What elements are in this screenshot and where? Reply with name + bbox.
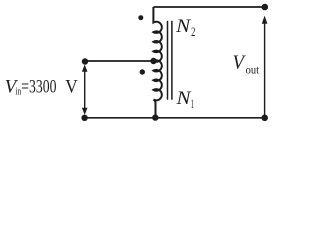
label: N2 (upper winding) [175,17,195,39]
label: N1 (lower winding) [175,89,194,111]
Vin voltage arrow (double-headed, between Vin terminals) [82,65,88,115]
node: winding tap junction [150,58,156,64]
node: Vout + terminal [262,4,269,11]
polarity dot of winding N1 [140,69,145,74]
svg-text:1: 1 [191,96,194,111]
polarity dot of winding N2 [138,15,143,20]
label: Vout [233,52,260,77]
transformer winding L (coil, 8 loops) with top and bottom stubs [153,7,161,118]
node: Vin - terminal [81,115,87,121]
wire: top horizontal (transformer top to Vout+ node) [153,6,264,8]
transformer core line 1 [167,21,169,100]
label: Vin = 3300 V [5,77,78,98]
node: winding bottom junction [152,114,158,120]
transformer core line 2 [171,21,173,100]
node: Vin + terminal [82,58,88,64]
Vout voltage arrow (pointing up, between Vout terminals) [262,16,268,116]
wire: bottom horizontal (Vin- node to Vout- node) [85,117,265,119]
svg-text:out: out [246,64,260,76]
svg-text:=3300: =3300 [21,77,56,98]
svg-text:N: N [175,17,192,37]
svg-text:V: V [65,77,78,98]
node: Vout - terminal [261,115,268,122]
svg-text:2: 2 [191,24,195,39]
wire: middle tap horizontal (Vin+ node to winding tap) [85,60,154,62]
